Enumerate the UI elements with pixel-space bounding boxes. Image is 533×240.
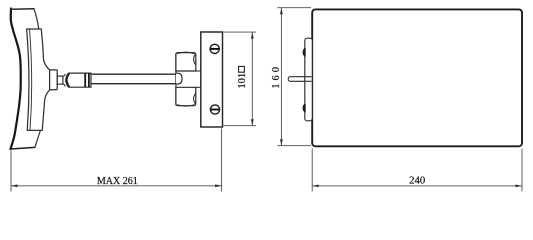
- dimension 160 : extension line bottom: [277, 145, 311, 147]
- arm end collar at wall hinge: [176, 73, 182, 84]
- dimension 240 : extension line left: [311, 149, 313, 192]
- wall screw bottom (side): [210, 105, 219, 114]
- wall screw top (side): [210, 44, 219, 53]
- arm bottom line: [91, 83, 177, 85]
- hinge neck: [57, 76, 63, 84]
- dimension 101-square : arrow up: [251, 32, 254, 39]
- dimension 160 : arrow down: [280, 139, 283, 146]
- dimension 101-square : arrow down: [251, 119, 254, 126]
- hinge tab connector middle top: [196, 70, 201, 72]
- dimension 160 : dimension line: [280, 8, 282, 146]
- ball joint cone top edge: [63, 74, 66, 77]
- wall plate (side): [201, 32, 223, 127]
- mirror front rectangle: [312, 9, 522, 146]
- svg-text:240: 240: [409, 175, 425, 187]
- dimension MAX 261 : arrow left: [11, 184, 18, 187]
- mirror glass top edge: [11, 8, 34, 11]
- dimension 160 : extension line top: [277, 7, 311, 9]
- hinge knuckle bottom: [176, 87, 196, 106]
- dimension MAX 261 : arrow right: [215, 184, 222, 187]
- ball joint cone bottom edge: [63, 84, 66, 87]
- arm stub (front): [288, 77, 311, 82]
- hinge tab connector middle bottom: [196, 86, 201, 88]
- knob cylinder body: [66, 73, 91, 87]
- mirror mounting flange: [50, 70, 58, 90]
- svg-text:160: 160: [271, 64, 282, 89]
- dimension 240 : extension line right: [521, 149, 523, 192]
- mirror glass right edge lower segment: [35, 131, 40, 147]
- knob ring 2: [88, 73, 90, 87]
- knob ring 1: [84, 73, 86, 87]
- dimension 240 : dimension line: [312, 185, 522, 187]
- bracket screw bump bottom: [303, 104, 305, 112]
- bracket screw bump top: [303, 48, 305, 56]
- dimension MAX 261 : dimension line: [11, 185, 222, 187]
- square symbol of label 101: [239, 66, 245, 72]
- mirror glass bottom edge: [11, 147, 35, 149]
- dimension 101-square : extension line bottom: [224, 125, 257, 127]
- dimension MAX 261 : extension line right: [221, 129, 223, 192]
- hinge knuckle top: [176, 52, 196, 71]
- clevis left edge: [175, 53, 177, 106]
- dimension 101-square : extension line top: [224, 31, 257, 33]
- svg-text:101: 101: [237, 73, 248, 89]
- mirror glass outer edge (side view): [11, 9, 21, 150]
- mirror housing left edge inner line: [30, 30, 32, 131]
- svg-text:MAX 261: MAX 261: [97, 176, 138, 187]
- dimension 160 : arrow up: [280, 8, 283, 15]
- dimension 101-square : dimension line: [251, 32, 253, 126]
- knob left rim (dark ellipse arc): [67, 73, 70, 87]
- dimension MAX 261 : extension line left: [10, 151, 12, 192]
- wall bracket (front, behind left edge): [305, 38, 313, 121]
- dimension 240 : arrow right: [516, 185, 523, 188]
- arm top line: [91, 73, 177, 75]
- mirror housing back panel: [27, 29, 50, 130]
- dimension 240 : arrow left: [312, 185, 319, 188]
- mirror glass right edge upper segment: [34, 9, 39, 30]
